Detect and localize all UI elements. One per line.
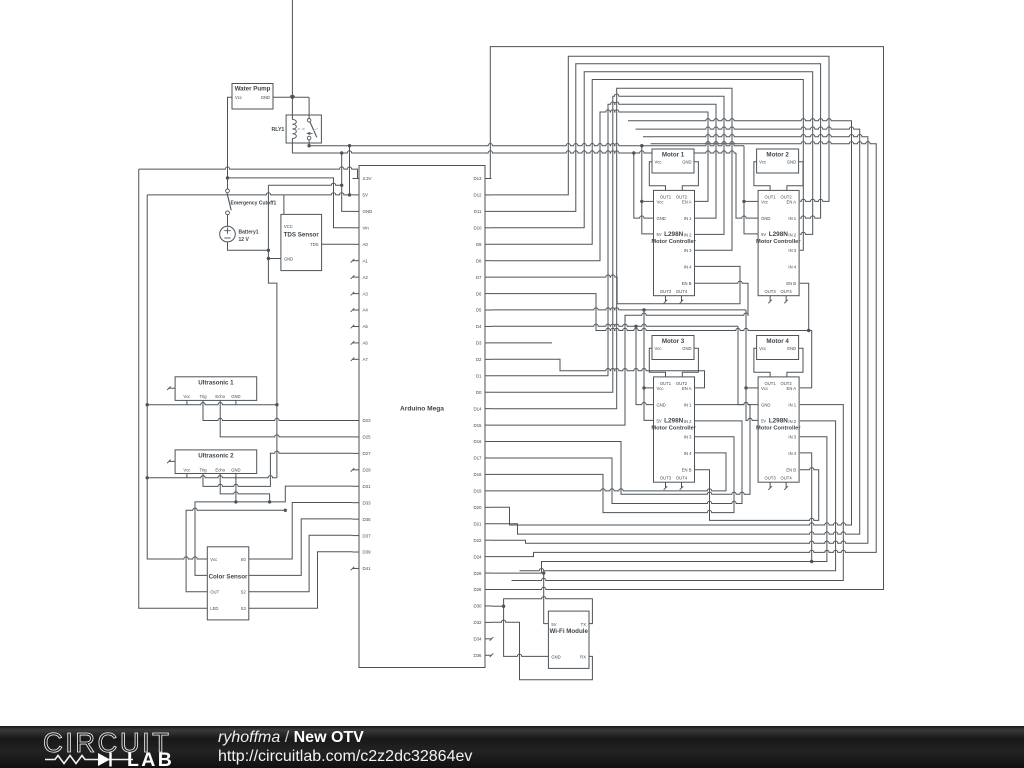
- wire Ultrasonic1 Trig to D23: [203, 400, 353, 420]
- Arduino pin D20: [485, 506, 492, 508]
- svg-text:5V: 5V: [657, 232, 662, 237]
- Arduino pin D35: [353, 518, 360, 520]
- wire Ultrasonic1 GND stub: [235, 400, 237, 404]
- wire L298N 3 OUT3 stub: [665, 482, 667, 488]
- Arduino pin D3: [485, 342, 492, 344]
- wire D14 to IN3 ctrl1: [492, 88, 733, 408]
- wire Color OUT: [186, 508, 285, 592]
- motor Motor 4: [757, 336, 799, 360]
- svg-text:D8: D8: [476, 258, 482, 263]
- svg-text:IN 3: IN 3: [788, 248, 796, 253]
- svg-text:Vcc: Vcc: [210, 557, 217, 562]
- wire left rail 5V down to Color Vcc: [147, 195, 207, 559]
- svg-text:3.3V: 3.3V: [363, 176, 372, 181]
- svg-text:Vcc: Vcc: [235, 95, 242, 100]
- wire IN1 ctrl4 line: [512, 405, 844, 581]
- junction GND rail tee: [340, 184, 343, 187]
- svg-text:GND: GND: [682, 160, 691, 165]
- svg-text:D35: D35: [363, 517, 372, 522]
- svg-text:IN 3: IN 3: [684, 435, 692, 440]
- svg-text:IN 3: IN 3: [788, 435, 796, 440]
- wire battery negative: [228, 242, 269, 250]
- svg-text:D39: D39: [363, 550, 372, 555]
- svg-text:OUT3: OUT3: [660, 289, 672, 294]
- junction GND riser on bus: [340, 151, 343, 154]
- Arduino pin D26: [485, 572, 492, 574]
- Arduino pin A5: [353, 326, 360, 328]
- wire Vcc rail cluster3: [644, 310, 654, 421]
- Ultrasonic 2 unused pin: [169, 460, 175, 462]
- Color Sensor: [207, 547, 249, 620]
- wire Ultrasonic1 Echo to D25: [220, 400, 352, 437]
- svg-text:LED: LED: [210, 606, 218, 611]
- Arduino pin D9: [485, 243, 492, 245]
- junction bus to Vcc rail c1: [640, 144, 643, 147]
- wire Vcc rail cluster4: [746, 310, 758, 421]
- wire Ultrasonic2 Echo drop: [220, 474, 269, 502]
- svg-text:Vcc: Vcc: [655, 346, 662, 351]
- wire relay switch bottom to supply bus: [309, 140, 744, 146]
- Arduino pin D31: [353, 485, 360, 487]
- svg-text:5V: 5V: [761, 418, 766, 423]
- svg-text:OUT: OUT: [210, 590, 219, 595]
- svg-text:5V: 5V: [657, 418, 662, 423]
- svg-text:GND: GND: [657, 216, 666, 221]
- svg-text:IN 4: IN 4: [788, 264, 796, 269]
- Arduino pin D14: [485, 408, 492, 410]
- svg-text:D10: D10: [473, 226, 482, 231]
- svg-text:L298N: L298N: [664, 417, 684, 424]
- wire D13 outer loop to D28: [490, 47, 883, 590]
- wire D18 to IN3 ctrl3: [492, 437, 735, 513]
- wire GND rail cluster1: [634, 153, 654, 218]
- wire Motor 2 Vcc to OUT1: [754, 162, 770, 191]
- svg-text:L298N: L298N: [664, 231, 684, 238]
- svg-text:OUT4: OUT4: [676, 289, 688, 294]
- motor Motor 1: [652, 149, 694, 173]
- wire Motor 1 GND to OUT2: [682, 162, 698, 191]
- svg-text:GND: GND: [787, 160, 796, 165]
- Arduino pin D19: [485, 490, 492, 492]
- svg-text:D24: D24: [473, 554, 482, 559]
- junction 5V riser at 5V line: [348, 193, 351, 196]
- svg-text:D18: D18: [473, 472, 482, 477]
- svg-text:IN 1: IN 1: [684, 216, 692, 221]
- wire L298N 4 OUT3 stub: [769, 482, 771, 488]
- svg-text:D26: D26: [473, 571, 482, 576]
- wire Water Pump GND: [273, 95, 309, 97]
- svg-text:5V: 5V: [551, 622, 556, 627]
- svg-text:IN 2: IN 2: [788, 419, 796, 424]
- resistor and diode symbol: [45, 756, 97, 764]
- svg-text:IN 4: IN 4: [788, 451, 796, 456]
- svg-text:OUT4: OUT4: [781, 475, 793, 480]
- wire D31 net: [195, 486, 353, 575]
- wire motor4 IN4 drop: [800, 453, 812, 562]
- op-amp U1 L298N Motor Controller: [654, 190, 695, 295]
- Ultrasonic 1: [175, 377, 257, 401]
- junction Vcc c2: [742, 200, 745, 203]
- wire D30 stub to TX vertical: [492, 605, 504, 607]
- wire D15 to EN B ctrl1: [492, 281, 749, 425]
- wire D22 far loop: [492, 134, 868, 543]
- svg-text:IN 2: IN 2: [684, 232, 692, 237]
- wire D20 far loop: [492, 119, 852, 525]
- wire Color S1 to D35: [249, 519, 353, 576]
- Arduino pin D7: [485, 276, 492, 278]
- svg-text:GND: GND: [261, 95, 270, 100]
- wire TDS VCC to 5V line: [283, 195, 285, 215]
- svg-text:Vcc: Vcc: [761, 386, 768, 391]
- TDS Sensor: [281, 214, 322, 270]
- svg-text:Vcc: Vcc: [761, 199, 768, 204]
- Arduino pin D17: [485, 457, 492, 459]
- wire D8 to EN A ctrl1: [492, 110, 709, 261]
- motor Motor 2: [757, 149, 799, 173]
- junction 5V riser on bus: [348, 144, 351, 147]
- svg-text:D30: D30: [473, 604, 482, 609]
- junction U2 Echo at D31 line: [268, 500, 271, 503]
- svg-text:Vcc: Vcc: [655, 160, 662, 165]
- svg-text:Ultrasonic 2: Ultrasonic 2: [198, 453, 234, 460]
- svg-text:A1: A1: [363, 258, 369, 263]
- svg-text:Vcc: Vcc: [759, 346, 766, 351]
- wire D21 far loop: [492, 127, 860, 534]
- wire IN2 ctrl4 line: [520, 421, 836, 571]
- junction Vcc c3: [642, 386, 645, 389]
- svg-text:TDS Sensor: TDS Sensor: [284, 231, 320, 238]
- Arduino pin D6: [485, 293, 492, 295]
- wire GND riser from bus: [342, 153, 353, 211]
- svg-text:D20: D20: [473, 505, 482, 510]
- wire L298N 2 OUT3 stub: [769, 296, 771, 302]
- junction Vcc c4: [744, 386, 747, 389]
- Ultrasonic 2: [175, 450, 257, 474]
- wire L298N 1 OUT4 stub: [681, 296, 683, 302]
- wire 3.3V line: [139, 167, 358, 179]
- Arduino pin D15: [485, 424, 492, 426]
- svg-text:Motor Controller: Motor Controller: [651, 239, 696, 245]
- wire Vcc stub cluster3: [644, 387, 654, 389]
- wire Vcc stub cluster4: [746, 387, 758, 389]
- svg-text:D16: D16: [473, 439, 482, 444]
- Arduino pin D24: [485, 556, 492, 558]
- svg-text:Color Sensor: Color Sensor: [209, 573, 248, 580]
- svg-text:D0: D0: [476, 390, 482, 395]
- Arduino pin A6: [353, 342, 360, 344]
- svg-text:Motor 4: Motor 4: [766, 338, 789, 345]
- svg-text:S2: S2: [241, 590, 247, 595]
- wire GND rail cluster4: [738, 326, 758, 404]
- junction U2 GND drop: [234, 500, 237, 503]
- svg-text:A0: A0: [363, 242, 369, 247]
- wire D2 to EN A ctrl3: [492, 359, 705, 388]
- svg-text:Emergency Cutoff1: Emergency Cutoff1: [231, 200, 277, 206]
- wire relay switch top: [308, 97, 310, 118]
- wire EN B ctrl2 drop: [800, 283, 809, 330]
- svg-text:D19: D19: [473, 489, 482, 494]
- svg-text:VCC: VCC: [284, 224, 293, 229]
- svg-text:S3: S3: [241, 606, 247, 611]
- wire Ultrasonic1 Vcc stub: [186, 400, 188, 404]
- wire Ultrasonic1 power line: [147, 403, 277, 405]
- wire D11 to IN1 ctrl2: [492, 64, 821, 218]
- svg-text:D34: D34: [473, 637, 482, 642]
- junction battery to ground rail: [267, 249, 270, 252]
- Arduino pin D10: [485, 227, 492, 229]
- svg-text:IN 2: IN 2: [788, 232, 796, 237]
- svg-text:D3: D3: [476, 341, 482, 346]
- Arduino pin A2: [353, 276, 360, 278]
- junction bus to GND rail c1: [632, 151, 635, 154]
- Arduino pin D18: [485, 473, 492, 475]
- motor Motor 3: [652, 336, 694, 360]
- wire WiFi 5V up to D26 line: [544, 573, 549, 624]
- wire D17 to IN2 ctrl3: [492, 421, 743, 504]
- svg-text:A6: A6: [363, 341, 369, 346]
- wire GND rail cluster2: [736, 153, 758, 218]
- Arduino pin A3: [353, 293, 360, 295]
- wire Vcc stub cluster1: [642, 200, 654, 202]
- svg-text:EN A: EN A: [787, 386, 797, 391]
- wire Vcc stub cluster2: [744, 200, 758, 202]
- wire 5V riser from bus: [349, 146, 351, 195]
- svg-text:Arduino Mega: Arduino Mega: [400, 406, 444, 413]
- CircuitLab logo: [30, 726, 220, 768]
- wire Vin line: [228, 178, 353, 228]
- Arduino pin D39: [353, 551, 360, 553]
- wire Motor 1 Vcc to OUT1: [649, 162, 665, 191]
- Arduino pin D36: [485, 654, 492, 656]
- junction Vin line at cutoff rail: [226, 176, 229, 179]
- svg-text:D15: D15: [473, 423, 482, 428]
- svg-text:Motor Controller: Motor Controller: [651, 426, 696, 432]
- svg-text:OUT3: OUT3: [765, 289, 777, 294]
- svg-text:Echo: Echo: [215, 467, 225, 472]
- junction TDS GND on rail: [267, 257, 270, 260]
- svg-text:D33: D33: [363, 500, 372, 505]
- svg-text:D14: D14: [473, 406, 482, 411]
- svg-text:A5: A5: [363, 324, 369, 329]
- Arduino pin D25: [353, 436, 360, 438]
- wire D7 to IN4 ctrl1: [492, 266, 741, 303]
- svg-text:GND: GND: [761, 403, 770, 408]
- svg-text:IN 4: IN 4: [684, 451, 692, 456]
- Arduino Mega U1: [359, 166, 485, 668]
- svg-text:Motor 2: Motor 2: [766, 152, 789, 159]
- wire D28 join: [492, 589, 503, 591]
- wire Ultrasonic2 GND stub: [235, 474, 237, 478]
- svg-text:LAB: LAB: [127, 749, 174, 768]
- svg-text:EN A: EN A: [787, 199, 797, 204]
- svg-text:A7: A7: [363, 357, 369, 362]
- svg-text:D9: D9: [476, 242, 482, 247]
- wire D3 spur: [492, 342, 553, 344]
- Arduino pin A1: [353, 260, 360, 262]
- svg-text:Motor Controller: Motor Controller: [756, 426, 801, 432]
- svg-text:D17: D17: [473, 456, 482, 461]
- svg-text:D4: D4: [476, 324, 482, 329]
- battery Battery1 12V: [220, 226, 236, 242]
- wire relay coil top to canvas top: [291, 0, 293, 115]
- wire L298N 2 OUT4 stub: [785, 296, 787, 302]
- Arduino pin D32: [485, 621, 492, 623]
- svg-text:OUT4: OUT4: [676, 475, 688, 480]
- wire D24 far loop: [492, 142, 877, 557]
- wire Ultrasonic2 GND drop: [235, 478, 237, 502]
- svg-text:EN A: EN A: [682, 386, 692, 391]
- svg-text:IN 1: IN 1: [788, 216, 796, 221]
- junction IN4-4 drop on D26 line: [810, 560, 813, 563]
- op-amp U2 L298N Motor Controller: [758, 190, 799, 295]
- svg-text:Water Pump: Water Pump: [235, 86, 271, 93]
- junction U1 power at 5V rail: [146, 403, 149, 406]
- wire Vcc rail cluster2: [744, 146, 758, 234]
- relay RLY1: [286, 115, 321, 143]
- svg-text:EN B: EN B: [682, 281, 692, 286]
- svg-text:TX: TX: [581, 622, 587, 627]
- Water Pump: [232, 84, 273, 110]
- wire EN B ctrl3 to EN B ctrl4: [695, 468, 819, 521]
- svg-text:D21: D21: [473, 521, 482, 526]
- wire Motor 3 GND to OUT2: [682, 348, 698, 377]
- svg-text:D7: D7: [476, 275, 482, 280]
- wire D5 supply line lower: [492, 308, 747, 310]
- wire 5V line: [147, 193, 352, 195]
- junction D30 at TX vertical: [502, 605, 505, 608]
- svg-text:Vcc: Vcc: [657, 199, 664, 204]
- wire TDS output to A0: [322, 243, 353, 245]
- wire Color S3 to D39: [249, 552, 353, 609]
- wire Color S0 to D33: [249, 503, 353, 560]
- wire D4 ground line lower: [492, 324, 739, 326]
- wire Motor 4 GND to OUT2: [787, 348, 803, 377]
- Arduino pin D2: [485, 358, 492, 360]
- svg-text:5V: 5V: [761, 232, 766, 237]
- wire Vcc rail cluster1: [642, 146, 654, 234]
- op-amp U4 L298N Motor Controller: [758, 377, 799, 482]
- svg-text:EN B: EN B: [786, 468, 796, 473]
- svg-text:D5: D5: [476, 308, 482, 313]
- wire switch to battery: [227, 215, 229, 227]
- Ultrasonic 1 unused pin: [169, 387, 175, 389]
- svg-text:Vcc: Vcc: [183, 467, 190, 472]
- svg-text:D27: D27: [363, 451, 372, 456]
- svg-text:GND: GND: [551, 655, 560, 660]
- wire WiFi TX loop: [504, 597, 593, 657]
- svg-text:D13: D13: [473, 176, 482, 181]
- svg-text:Motor 1: Motor 1: [662, 152, 685, 159]
- Arduino pin D23: [353, 420, 360, 422]
- wire D26 net to motor4 IN3: [492, 437, 827, 573]
- junction WiFi 5V at D26 line: [542, 571, 545, 574]
- Arduino pin D22: [485, 539, 492, 541]
- wire Motor 2 GND to OUT2: [787, 162, 803, 191]
- wire Color S2 to D37: [249, 535, 353, 592]
- wire TDS GND: [268, 258, 281, 260]
- wire GND rail cluster3: [636, 326, 654, 404]
- Arduino pin D29: [353, 469, 360, 471]
- wire Ultrasonic2 power line: [147, 476, 277, 478]
- svg-text:GND: GND: [682, 346, 691, 351]
- svg-text:L298N: L298N: [769, 231, 789, 238]
- svg-text:Trig: Trig: [199, 467, 207, 472]
- Arduino pin 3.3V: [353, 178, 360, 180]
- Arduino pin A0: [353, 243, 360, 245]
- svg-text:IN 2: IN 2: [684, 419, 692, 424]
- wire L298N 4 OUT4 stub: [785, 482, 787, 488]
- Arduino pin 5V: [353, 194, 360, 196]
- svg-text:IN 4: IN 4: [684, 264, 692, 269]
- svg-text:GND: GND: [761, 216, 770, 221]
- Arduino pin D37: [353, 535, 360, 537]
- svg-text:Echo: Echo: [215, 394, 225, 399]
- wire D1 to IN1 ctrl1: [492, 102, 717, 376]
- svg-text:D23: D23: [363, 418, 372, 423]
- Arduino pin D28: [485, 589, 492, 591]
- svg-text:D25: D25: [363, 435, 372, 440]
- svg-text:D28: D28: [473, 587, 482, 592]
- svg-text:Motor 3: Motor 3: [662, 338, 685, 345]
- Arduino pin D0: [485, 391, 492, 393]
- wire Motor 4 Vcc to OUT1: [754, 348, 770, 377]
- svg-text:GND: GND: [284, 256, 293, 261]
- svg-text:GND: GND: [363, 209, 373, 214]
- Arduino pin D41: [353, 567, 360, 569]
- Arduino pin D16: [485, 441, 492, 443]
- svg-text:OUT3: OUT3: [765, 475, 777, 480]
- wire D0 to IN2 ctrl1: [492, 94, 725, 392]
- wire Motor 3 Vcc to OUT1: [649, 348, 665, 377]
- Arduino pin D11: [485, 210, 492, 212]
- svg-text:Vcc: Vcc: [657, 386, 664, 391]
- wire D12 to EN A ctrl2: [492, 56, 830, 201]
- svg-text:GND: GND: [657, 403, 666, 408]
- wire left rail 3.3V down to LED: [139, 169, 208, 608]
- svg-text:OUT3: OUT3: [660, 475, 672, 480]
- wire L298N 1 OUT3 stub: [665, 296, 667, 302]
- svg-text:D22: D22: [473, 538, 482, 543]
- Arduino pin D13: [485, 178, 492, 180]
- Arduino pin D4: [485, 325, 492, 327]
- Arduino pin D21: [485, 523, 492, 525]
- svg-text:12 V: 12 V: [239, 237, 250, 243]
- wire D9 to IN3 ctrl2: [492, 80, 804, 251]
- wire Ultrasonic2 Vcc stub: [186, 474, 188, 478]
- svg-text:A4: A4: [363, 308, 369, 313]
- wire ground rail upper: [268, 183, 341, 185]
- svg-text:Motor Controller: Motor Controller: [756, 239, 801, 245]
- Arduino pin D12: [485, 194, 492, 196]
- Arduino pin D30: [485, 605, 492, 607]
- svg-text:D2: D2: [476, 357, 482, 362]
- svg-text:D37: D37: [363, 533, 372, 538]
- junction D5 line c3 tap: [642, 308, 645, 311]
- svg-text:S0: S0: [241, 557, 247, 562]
- junction D4 line c3 tap: [634, 325, 637, 328]
- svg-text:D11: D11: [474, 209, 482, 214]
- svg-text:RLY1: RLY1: [272, 127, 285, 133]
- Arduino pin A4: [353, 309, 360, 311]
- svg-text:D41: D41: [363, 566, 372, 571]
- junction Color OUT tap: [284, 509, 287, 512]
- svg-text:Vcc: Vcc: [759, 160, 766, 165]
- svg-text:Vcc: Vcc: [183, 394, 190, 399]
- svg-text:OUT4: OUT4: [781, 289, 793, 294]
- svg-text:IN 1: IN 1: [684, 403, 692, 408]
- svg-text:EN B: EN B: [682, 468, 692, 473]
- svg-text:Battery1: Battery1: [239, 229, 259, 235]
